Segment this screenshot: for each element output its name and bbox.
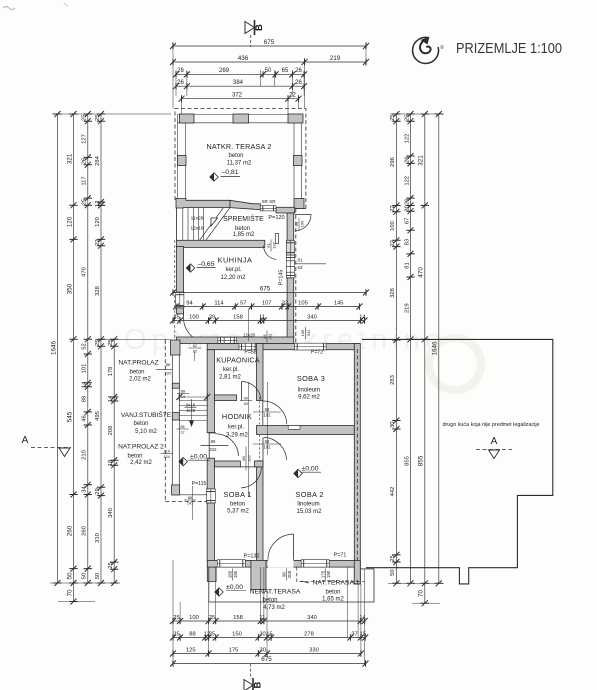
svg-text:70: 70 — [418, 590, 425, 598]
svg-text:83: 83 — [265, 407, 270, 412]
pier bottom-right extension — [354, 560, 360, 584]
svg-text:88: 88 — [188, 496, 192, 500]
svg-text:192: 192 — [264, 413, 272, 418]
svg-text:25: 25 — [209, 631, 215, 637]
svg-text:384: 384 — [233, 80, 244, 86]
bottom dim row 3 — [173, 653, 361, 655]
svg-text:2,42 m2: 2,42 m2 — [130, 460, 152, 466]
lower stairs treads — [179, 400, 207, 402]
wall: kupaonica/soba3 north — [207, 344, 359, 350]
svg-text:SPREMIŠTE: SPREMIŠTE — [223, 214, 264, 223]
svg-text:29: 29 — [209, 314, 215, 320]
svg-text:ker.pl.: ker.pl. — [228, 424, 244, 430]
wall: kuhinja east lower part — [287, 278, 294, 338]
svg-text:190: 190 — [326, 570, 331, 578]
svg-text:321: 321 — [418, 155, 425, 166]
svg-text:196: 196 — [300, 220, 305, 227]
svg-text:26: 26 — [177, 80, 184, 86]
svg-text:65: 65 — [282, 68, 289, 74]
svg-text:150: 150 — [232, 631, 242, 637]
svg-text:436: 436 — [238, 55, 249, 62]
door kuhinja southwest (arc) — [184, 318, 209, 343]
terrace column top-right — [288, 114, 303, 123]
svg-text:12x18: 12x18 — [190, 226, 203, 232]
svg-text:141: 141 — [269, 333, 273, 339]
svg-text:22: 22 — [289, 93, 296, 99]
svg-text:15,03 m2: 15,03 m2 — [296, 509, 322, 515]
svg-text:278: 278 — [304, 631, 314, 637]
section marker B bottom — [244, 680, 253, 690]
dashed overhang right of kuhinja block — [295, 209, 297, 344]
svg-text:88: 88 — [166, 362, 171, 367]
right dim line 2 — [410, 114, 412, 583]
svg-text:495: 495 — [95, 411, 101, 421]
right dim line 1 — [395, 114, 397, 583]
label 175/190 — [320, 569, 331, 581]
svg-text:25: 25 — [108, 339, 114, 345]
svg-text:30: 30 — [259, 647, 265, 653]
svg-text:67: 67 — [404, 218, 410, 224]
window kuhinja east lower — [286, 255, 294, 278]
wall: kuhinja south — [177, 337, 294, 344]
svg-text:±0,00: ±0,00 — [226, 584, 243, 591]
svg-text:2,02 m2: 2,02 m2 — [129, 376, 151, 382]
svg-text:88: 88 — [181, 425, 185, 429]
right chain 2 ticks — [406, 111, 414, 117]
bottom dim row 1 — [173, 620, 365, 622]
svg-text:442: 442 — [390, 487, 396, 497]
svg-text:26: 26 — [177, 68, 184, 74]
terrace dashed roof outline — [175, 109, 306, 209]
window kuhinja west — [176, 292, 184, 308]
svg-text:3,29 m2: 3,29 m2 — [226, 432, 248, 438]
svg-text:34: 34 — [82, 486, 88, 493]
left dim line B — [73, 114, 75, 583]
svg-text:25: 25 — [82, 199, 88, 205]
entrance door west — [216, 434, 239, 456]
wall: soba3/soba2 divider — [257, 426, 355, 435]
svg-text:P=71: P=71 — [334, 553, 347, 559]
svg-text:NATKR. TERASA 2: NATKR. TERASA 2 — [206, 142, 271, 151]
wall: terrace bottom / spremiste north, tapering — [230, 200, 260, 209]
svg-text:linoleum: linoleum — [298, 387, 320, 393]
svg-text:117: 117 — [82, 176, 88, 185]
svg-text:283: 283 — [390, 375, 396, 385]
left boundary wall of passages — [171, 354, 173, 485]
wall: spremiste/kuhinja divider — [177, 240, 265, 247]
svg-text:70: 70 — [66, 589, 73, 597]
svg-text:675: 675 — [264, 39, 275, 46]
svg-text:NAT.TERASA 1: NAT.TERASA 1 — [313, 580, 360, 587]
svg-text:141: 141 — [187, 502, 193, 506]
svg-text:1,85 m2: 1,85 m2 — [233, 232, 255, 238]
svg-text:57: 57 — [240, 300, 246, 306]
door gap main west (entrance) — [208, 433, 210, 459]
door kupaonica — [242, 382, 262, 401]
svg-text:26: 26 — [82, 158, 88, 164]
svg-text:–0,65: –0,65 — [197, 261, 214, 268]
svg-text:120: 120 — [66, 216, 73, 227]
svg-text:22: 22 — [282, 300, 288, 306]
svg-text:341: 341 — [306, 329, 311, 336]
svg-text:18: 18 — [108, 460, 114, 466]
svg-text:beton: beton — [228, 153, 243, 159]
svg-text:KUHINJA: KUHINJA — [218, 256, 253, 265]
svg-text:100: 100 — [189, 314, 199, 320]
svg-text:12x28: 12x28 — [243, 333, 256, 338]
svg-text:89: 89 — [211, 439, 216, 444]
svg-text:4x28: 4x28 — [186, 408, 196, 413]
right dim 70 below — [424, 583, 426, 603]
bottom dim row 2 — [173, 637, 365, 639]
svg-text:122: 122 — [404, 134, 410, 144]
svg-text:855: 855 — [404, 456, 410, 466]
svg-text:222: 222 — [210, 447, 218, 452]
svg-text:30: 30 — [259, 631, 265, 637]
svg-text:29: 29 — [95, 488, 101, 494]
svg-text:beton: beton — [129, 369, 144, 375]
svg-text:SOBA 3: SOBA 3 — [297, 374, 325, 383]
svg-text:11: 11 — [259, 615, 265, 621]
svg-text:14: 14 — [181, 395, 185, 399]
terrace level -0,81 — [210, 173, 218, 181]
svg-text:192: 192 — [247, 454, 252, 461]
svg-text:210: 210 — [164, 449, 170, 453]
svg-text:158: 158 — [233, 615, 243, 621]
svg-text:101: 101 — [82, 364, 88, 374]
svg-text:100: 100 — [390, 221, 396, 231]
svg-text:150: 150 — [227, 570, 232, 578]
svg-text:90: 90 — [281, 572, 286, 577]
hodnik dim leader lines — [247, 382, 249, 497]
svg-text:beton: beton — [262, 598, 277, 604]
svg-text:83: 83 — [404, 239, 410, 245]
svg-text:beton: beton — [230, 501, 245, 507]
svg-text:88: 88 — [241, 456, 246, 461]
svg-text:11: 11 — [259, 314, 265, 320]
svg-text:2,81 m2: 2,81 m2 — [219, 374, 241, 380]
svg-text:50: 50 — [265, 68, 272, 74]
svg-text:269: 269 — [219, 68, 230, 74]
wall: kupaonica/hodnik divider — [215, 395, 237, 401]
upper stairs diagonal — [206, 208, 230, 241]
window soba2 south — [301, 560, 329, 567]
svg-text:855: 855 — [418, 455, 425, 466]
svg-text:114: 114 — [214, 300, 224, 306]
svg-text:5,10 m2: 5,10 m2 — [135, 429, 157, 435]
svg-text:25: 25 — [390, 555, 396, 561]
svg-text:A: A — [491, 436, 498, 447]
niche in soba3/soba2 wall — [288, 426, 300, 430]
terrace column top-mid — [233, 114, 249, 123]
bottom extension lines — [172, 560, 174, 664]
svg-text:145: 145 — [334, 300, 344, 306]
svg-text:25: 25 — [173, 314, 179, 320]
svg-text:±0,00: ±0,00 — [190, 454, 207, 461]
door hodnik to soba2 — [264, 437, 287, 460]
svg-text:372: 372 — [232, 93, 243, 99]
svg-text:P=120: P=120 — [268, 215, 284, 221]
door hodnik to soba3 — [263, 401, 287, 424]
pier bottom-center — [251, 560, 266, 589]
wall: hodnik/soba1 divider — [215, 461, 241, 467]
svg-text:25: 25 — [173, 615, 179, 621]
top dimension chain 26/269/50/65/26 — [176, 73, 304, 75]
svg-text:12,20 m2: 12,20 m2 — [220, 275, 246, 281]
svg-text:96: 96 — [294, 221, 299, 226]
svg-text:127: 127 — [82, 134, 88, 144]
top dimension chain 436/219 — [173, 61, 366, 63]
svg-text:60: 60 — [244, 396, 248, 400]
svg-text:SR SR: SR SR — [261, 199, 276, 204]
dashed overhang left lower — [164, 340, 166, 502]
label 61/197 — [266, 240, 277, 252]
svg-text:25: 25 — [108, 562, 114, 568]
svg-text:P=130: P=130 — [244, 554, 260, 560]
svg-text:61: 61 — [266, 243, 271, 248]
svg-text:26: 26 — [295, 80, 302, 86]
level ±0,00 soba2 — [294, 469, 302, 477]
left chain E ticks — [110, 336, 118, 342]
svg-text:545: 545 — [66, 411, 73, 422]
svg-text:219: 219 — [404, 303, 410, 313]
interior dim row 94/114/57/107/22/105/145 — [176, 306, 359, 308]
nenat. terasa slab outline — [209, 567, 374, 602]
interior dim row 675 — [173, 292, 366, 294]
svg-text:5x18: 5x18 — [186, 402, 196, 407]
svg-text:NAT.PROLAZ: NAT.PROLAZ — [118, 360, 158, 367]
wall: kuhinja west below window — [177, 308, 184, 314]
svg-text:330: 330 — [309, 647, 319, 653]
svg-text:37: 37 — [351, 631, 357, 637]
svg-text:208: 208 — [108, 426, 114, 436]
left dim line E — [113, 339, 115, 583]
left chain B ticks — [69, 111, 77, 117]
svg-text:1646: 1646 — [50, 341, 57, 356]
svg-text:260: 260 — [66, 525, 73, 536]
wall: main west — [207, 350, 214, 433]
svg-text:192: 192 — [264, 445, 272, 450]
wall: main south — [207, 560, 359, 567]
svg-text:63: 63 — [298, 265, 303, 270]
svg-text:P=145: P=145 — [279, 270, 285, 286]
kuhinja level -0,65 — [186, 264, 194, 272]
svg-text:50: 50 — [390, 569, 396, 575]
corner pier passage top-left — [171, 340, 181, 355]
svg-text:11x28: 11x28 — [191, 216, 204, 222]
svg-text:124: 124 — [164, 455, 170, 459]
svg-text:25: 25 — [82, 114, 88, 120]
svg-text:30: 30 — [390, 421, 396, 427]
svg-text:26: 26 — [404, 199, 410, 205]
wall: main east — [354, 344, 360, 584]
svg-text:VANJ.STUBIŠTE: VANJ.STUBIŠTE — [121, 410, 172, 419]
svg-text:14: 14 — [359, 314, 366, 320]
svg-text:25: 25 — [390, 114, 396, 120]
svg-text:9,62 m2: 9,62 m2 — [298, 394, 320, 400]
svg-text:64: 64 — [244, 402, 248, 406]
svg-text:14: 14 — [82, 381, 88, 388]
svg-text:5,37 m2: 5,37 m2 — [227, 508, 249, 514]
svg-text:94: 94 — [186, 300, 193, 306]
top dimension chain 675 — [173, 45, 366, 47]
svg-text:106: 106 — [300, 329, 305, 336]
svg-text:12: 12 — [95, 200, 101, 206]
svg-text:12: 12 — [181, 431, 185, 435]
level ±0,00 bottom terrace — [215, 588, 223, 596]
terrace column top-left — [180, 114, 195, 123]
svg-text:HODNIK: HODNIK — [222, 412, 252, 421]
right dim line 3 — [424, 114, 426, 583]
label 96/196 — [294, 218, 305, 230]
svg-text:205: 205 — [287, 570, 292, 578]
svg-text:1646: 1646 — [432, 341, 439, 356]
door spremiste east (exterior) — [295, 214, 312, 216]
svg-text:46: 46 — [82, 415, 88, 421]
svg-text:83: 83 — [265, 439, 270, 444]
svg-text:1,65 m2: 1,65 m2 — [322, 597, 344, 603]
top dimension chain 372/22 — [182, 98, 299, 100]
scan blob left of title — [441, 45, 444, 49]
right chain 1 ticks — [392, 111, 400, 117]
svg-text:NAT.PROLAZ 2: NAT.PROLAZ 2 — [118, 444, 164, 451]
label 90/205 — [281, 569, 292, 581]
svg-text:158: 158 — [233, 314, 243, 320]
svg-text:SOBA 2: SOBA 2 — [296, 490, 324, 499]
svg-text:296: 296 — [390, 157, 396, 167]
svg-text:62: 62 — [193, 344, 197, 348]
svg-text:11,37 m2: 11,37 m2 — [227, 161, 252, 167]
svg-text:25: 25 — [95, 114, 101, 120]
nat.terasa 1 dashed boundary — [297, 567, 364, 582]
svg-text:175: 175 — [320, 570, 325, 578]
left dim line 1646 — [57, 114, 59, 583]
room nat.terasa 1 — [301, 581, 309, 583]
svg-text:125: 125 — [186, 647, 196, 653]
svg-text:22: 22 — [95, 239, 101, 245]
top dimension chain 26/384/26 — [176, 85, 304, 87]
svg-text:219: 219 — [330, 55, 341, 62]
window kupaonica north — [239, 343, 258, 350]
svg-text:25: 25 — [173, 631, 179, 637]
door kuhinja north (to spremiste area) — [275, 234, 278, 244]
svg-text:B: B — [253, 681, 264, 688]
svg-text:88: 88 — [189, 631, 195, 637]
svg-text:100: 100 — [189, 615, 199, 621]
svg-text:–0,81: –0,81 — [221, 169, 238, 176]
gate pier left — [172, 485, 180, 495]
level ±0,00 hodnik entrance — [179, 457, 187, 465]
left dim line C — [87, 114, 89, 583]
svg-text:328: 328 — [95, 286, 101, 296]
svg-text:P=115: P=115 — [192, 481, 207, 487]
svg-text:210: 210 — [82, 450, 88, 460]
svg-text:340: 340 — [108, 508, 114, 518]
svg-text:197: 197 — [272, 241, 277, 248]
pier bottom-left — [207, 560, 216, 581]
left dim 70 below — [73, 583, 75, 602]
legalization dashed line over east wall — [356, 349, 358, 584]
svg-text:KUPAONICA: KUPAONICA — [216, 356, 260, 365]
svg-text:321: 321 — [66, 153, 73, 164]
svg-text:675: 675 — [261, 656, 272, 663]
svg-text:310: 310 — [95, 533, 101, 543]
svg-text:4,73 m2: 4,73 m2 — [263, 605, 285, 611]
svg-text:P=72: P=72 — [311, 350, 323, 356]
svg-text:22: 22 — [390, 205, 396, 211]
wall: main west lower — [207, 503, 214, 560]
svg-text:SOBA 1: SOBA 1 — [224, 490, 252, 499]
label 106/341 — [300, 327, 311, 339]
svg-text:82: 82 — [193, 350, 197, 354]
svg-text:52: 52 — [82, 343, 88, 349]
upper stairs treads — [182, 208, 184, 241]
scan artifact — [3, 7, 15, 10]
right chain 3 ticks — [421, 111, 429, 117]
svg-text:drugo kuća koja nije predmet l: drugo kuća koja nije predmet legalizacij… — [442, 422, 539, 428]
walkway edge line — [180, 494, 208, 496]
svg-text:beton: beton — [133, 421, 148, 427]
svg-text:81: 81 — [298, 258, 303, 263]
svg-text:120: 120 — [95, 217, 101, 227]
svg-text:284: 284 — [95, 155, 101, 165]
terrace beam lines — [178, 114, 302, 116]
top extension lines — [172, 42, 174, 109]
svg-text:88: 88 — [82, 396, 88, 402]
svg-text:14: 14 — [108, 395, 114, 402]
svg-text:50: 50 — [66, 572, 73, 580]
svg-text:14: 14 — [359, 615, 366, 621]
left chain C ticks — [84, 111, 92, 117]
svg-text:50: 50 — [82, 573, 88, 579]
svg-text:122: 122 — [404, 176, 410, 186]
svg-text:PRIZEMLJE 1:100: PRIZEMLJE 1:100 — [456, 41, 562, 57]
passage tick line — [179, 396, 207, 398]
svg-text:20: 20 — [404, 205, 410, 211]
left chain D ticks — [97, 111, 105, 117]
wall: main west between door and window — [207, 458, 214, 489]
svg-text:25: 25 — [209, 615, 215, 621]
svg-text:350: 350 — [66, 283, 73, 294]
svg-text:ker.pl.: ker.pl. — [225, 267, 241, 273]
wall: kuhinja east — [287, 213, 294, 240]
svg-text:26: 26 — [404, 156, 410, 162]
svg-text:107: 107 — [262, 300, 272, 306]
door opening south (terrace door) — [268, 560, 294, 567]
right dim line 4 1646 — [438, 114, 440, 583]
svg-text:178: 178 — [108, 367, 114, 377]
svg-text:340: 340 — [307, 615, 317, 621]
svg-text:ker.pl.: ker.pl. — [223, 367, 239, 373]
svg-text:260: 260 — [82, 526, 88, 536]
svg-text:50: 50 — [95, 573, 101, 579]
svg-text:105: 105 — [298, 300, 308, 306]
left dim line D — [100, 114, 102, 583]
door axis dashed line — [259, 397, 261, 463]
window kuhinja east upper — [286, 240, 294, 255]
svg-text:675: 675 — [260, 285, 271, 292]
svg-text:25: 25 — [95, 339, 101, 345]
svg-text:470: 470 — [418, 267, 425, 278]
svg-text:81: 81 — [404, 262, 410, 268]
neighbor bottom edge extension — [360, 568, 374, 570]
svg-text:beton: beton — [127, 453, 142, 459]
wall: top-left corner block — [176, 199, 230, 209]
svg-text:±0,00: ±0,00 — [302, 466, 319, 473]
bottom dim row 675 — [173, 663, 366, 665]
terrace column right — [294, 156, 303, 166]
svg-text:470: 470 — [82, 267, 88, 277]
